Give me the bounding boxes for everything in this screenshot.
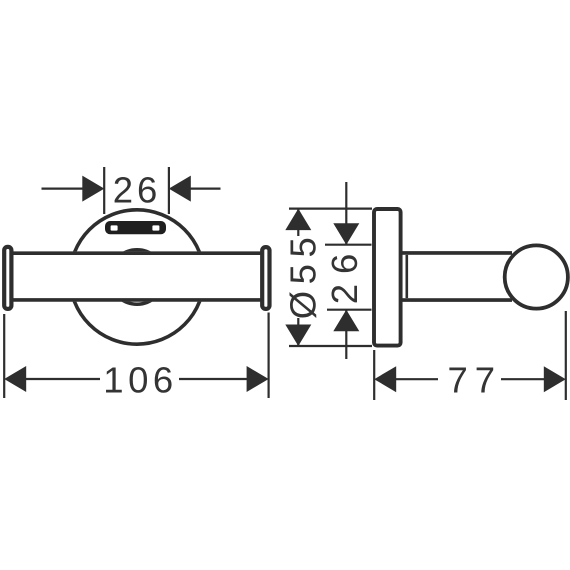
hub circle (front view) [110,250,164,304]
dim 26 ball: top arrow [333,223,359,245]
dim 26 ball: lower tail line [345,310,347,359]
dim 26 top: right arrow [169,176,191,202]
dim 26 top: left tail line [42,188,84,190]
dim 26 ball: upper tail line [345,182,347,245]
dim 26 top: right tail line [191,188,221,190]
dim 106 bottom: left extension line [3,314,5,398]
dim diameter 55: upper line segment [297,209,299,236]
arm (side view) bottom edge [400,298,512,302]
dim 106 bottom: right line segment [179,378,248,380]
slot hole right [152,225,159,230]
dim 26 top: left extension line [103,167,105,214]
wall plate (side view) [374,209,401,346]
bar body fill [12,251,261,301]
dim 26 ball: top extension line [325,244,372,246]
svg-text:26: 26 [113,170,162,211]
arm (side view) top edge [400,251,512,255]
dim 77: right line segment [501,378,545,380]
dim 77: left arrow [374,366,396,392]
bar top edge [12,251,261,255]
seam line between plate and arm [405,255,408,298]
right end cap [262,247,269,309]
dim diameter 55: top arrow [285,209,311,231]
dim 77: left extension line [373,350,375,400]
left end cap [4,247,11,309]
dim 26 top: right extension line [168,167,170,214]
dim 26 top: left arrow [82,176,104,202]
hook ball [505,245,568,308]
dim 77: right arrow [544,366,566,392]
dim 26 ball: bottom arrow [333,310,359,332]
dim diameter 55: bottom extension line [289,345,372,347]
arm fill [400,255,512,298]
backplate circle (front view) [70,210,204,344]
dim 106 bottom: left line segment [25,378,100,380]
dim diameter 55: lower line segment [297,318,299,346]
dim 106 bottom: left arrow [4,366,26,392]
bar bottom edge [12,298,261,302]
dim 77: left line segment [396,378,439,380]
svg-text:Ø55: Ø55 [283,231,324,320]
dim 106 bottom: right arrow [247,366,269,392]
svg-text:77: 77 [447,360,502,401]
dim diameter 55: bottom arrow [285,325,311,347]
mounting slot [105,221,166,234]
svg-text:106: 106 [103,359,177,400]
dim 26 ball: bottom extension line [327,309,372,311]
dim 77: right extension line [565,311,567,400]
slot hole left [111,225,118,230]
svg-text:26: 26 [324,244,365,305]
dim diameter 55: top extension line [289,208,372,210]
dim 106 bottom: right extension line [268,313,270,399]
